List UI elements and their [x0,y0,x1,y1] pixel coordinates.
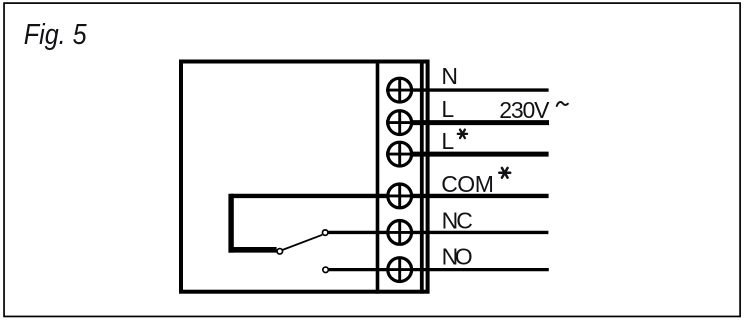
svg-text:NC: NC [442,208,473,234]
svg-text:COM: COM [441,171,493,197]
svg-text:N: N [441,63,458,89]
svg-text:L: L [441,128,454,154]
svg-text:NO: NO [442,243,472,269]
svg-text:230V: 230V [499,97,550,123]
svg-text:L: L [441,96,454,122]
svg-text:Fig. 5: Fig. 5 [24,19,87,51]
